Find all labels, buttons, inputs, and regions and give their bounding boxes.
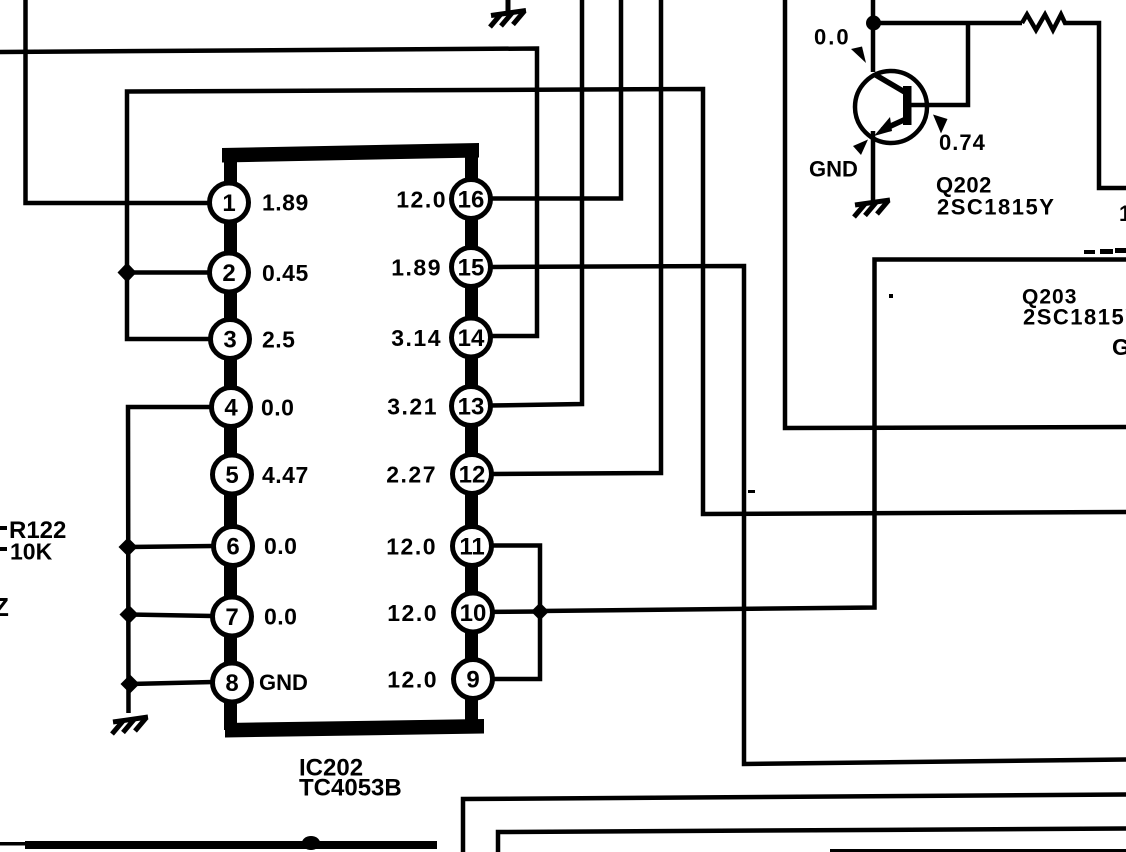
svg-text:0.0: 0.0 [261,395,294,421]
svg-text:1: 1 [1119,201,1126,226]
svg-text:9: 9 [466,667,479,694]
svg-text:3.21: 3.21 [387,394,438,420]
svg-text:0.0: 0.0 [264,604,297,630]
svg-text:10K: 10K [10,539,53,565]
svg-text:3.14: 3.14 [391,325,442,351]
svg-text:12.0: 12.0 [387,600,438,626]
svg-text:2.5: 2.5 [262,327,295,353]
svg-text:7: 7 [225,604,238,631]
svg-text:5: 5 [225,462,238,489]
svg-text:2SC1815Y: 2SC1815Y [937,195,1055,220]
svg-text:12: 12 [459,462,486,489]
svg-text:GND: GND [809,157,858,182]
svg-text:1: 1 [222,190,235,217]
svg-text:Z: Z [0,592,9,622]
svg-text:12.0: 12.0 [396,187,447,213]
svg-text:TC4053B: TC4053B [299,775,402,802]
svg-text:0.45: 0.45 [262,260,309,286]
svg-text:GN: GN [1112,334,1126,360]
svg-text:2.27: 2.27 [386,462,437,488]
svg-text:12.0: 12.0 [387,667,438,693]
svg-text:10: 10 [460,600,487,627]
svg-text:11: 11 [459,534,484,561]
svg-text:14: 14 [458,325,485,352]
svg-text:15: 15 [458,255,485,282]
svg-text:8: 8 [225,670,238,697]
svg-text:GND: GND [259,670,308,695]
svg-text:0.0: 0.0 [814,25,851,50]
svg-text:4.47: 4.47 [262,462,309,488]
svg-text:1.89: 1.89 [391,255,442,281]
svg-text:3: 3 [223,327,236,354]
svg-text:6: 6 [226,534,239,561]
svg-text:12.0: 12.0 [386,534,437,560]
svg-text:2: 2 [222,260,235,287]
svg-text:4: 4 [224,395,238,422]
svg-text:16: 16 [458,187,485,214]
svg-text:13: 13 [458,394,485,421]
svg-text:0.74: 0.74 [939,130,986,155]
svg-text:1.89: 1.89 [262,190,309,216]
svg-text:0.0: 0.0 [264,533,297,559]
svg-text:2SC1815Y: 2SC1815Y [1023,305,1126,330]
